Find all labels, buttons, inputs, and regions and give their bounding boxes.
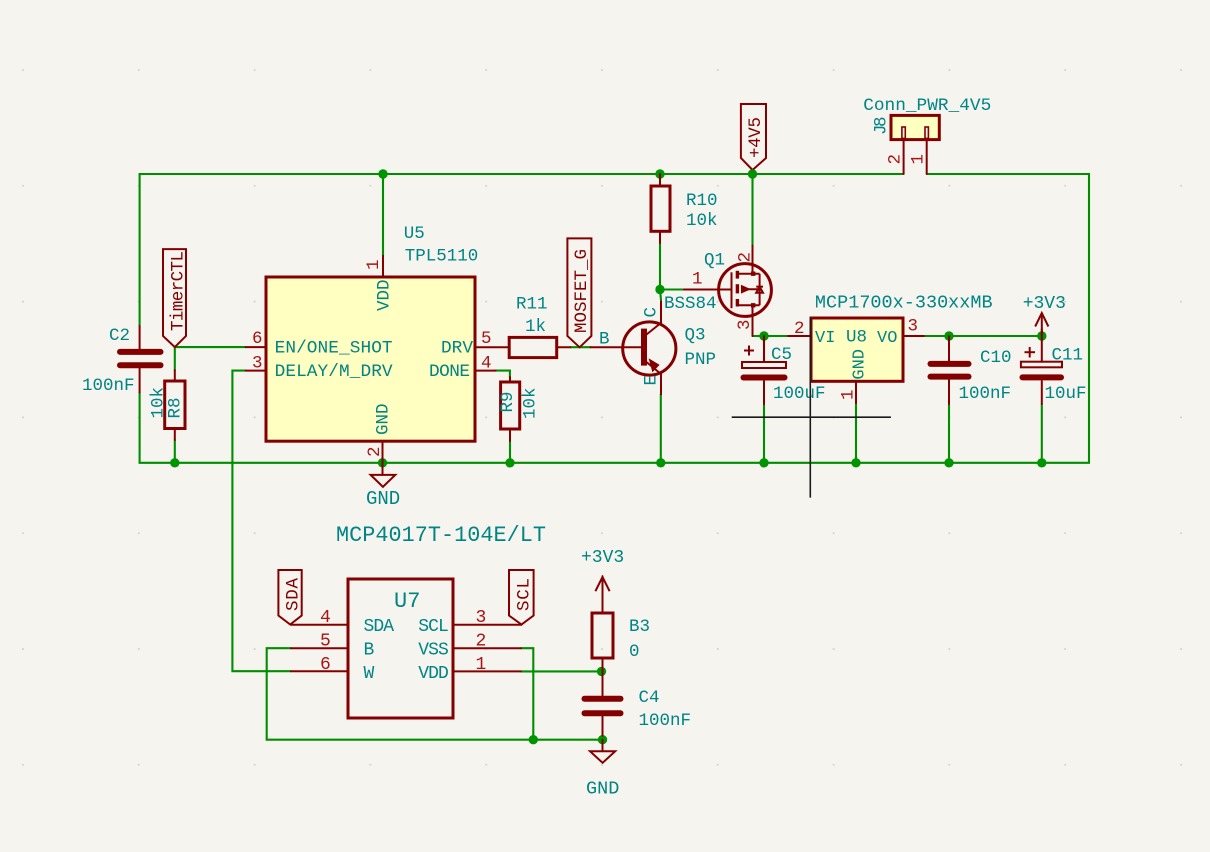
svg-text:VDD: VDD: [418, 664, 449, 684]
svg-text:6: 6: [320, 655, 331, 675]
svg-text:VO: VO: [877, 329, 897, 348]
svg-text:DELAY/M_DRV: DELAY/M_DRV: [275, 362, 393, 382]
svg-text:1: 1: [364, 259, 384, 270]
svg-text:PNP: PNP: [685, 350, 717, 370]
svg-text:U8: U8: [846, 328, 867, 348]
svg-text:100nF: 100nF: [639, 711, 692, 731]
svg-text:10uF: 10uF: [1045, 384, 1087, 404]
svg-text:C5: C5: [771, 345, 792, 365]
svg-text:TPL5110: TPL5110: [405, 247, 479, 267]
svg-text:+4V5: +4V5: [746, 117, 766, 158]
svg-text:3: 3: [908, 317, 919, 337]
svg-text:MOSFET_G: MOSFET_G: [572, 249, 592, 333]
svg-text:U7: U7: [394, 589, 420, 614]
svg-text:C11: C11: [1052, 346, 1084, 366]
svg-text:6: 6: [252, 329, 263, 349]
svg-text:Q1: Q1: [704, 251, 725, 271]
svg-text:MCP4017T-104E/LT: MCP4017T-104E/LT: [336, 523, 546, 548]
svg-text:SCL: SCL: [515, 578, 535, 611]
svg-text:GND: GND: [366, 488, 400, 510]
svg-text:SDA: SDA: [284, 578, 304, 611]
svg-text:4: 4: [481, 354, 492, 374]
svg-text:GND: GND: [851, 349, 870, 380]
svg-text:3: 3: [735, 319, 755, 330]
svg-text:C10: C10: [980, 348, 1012, 368]
svg-text:TimerCTL: TimerCTL: [169, 251, 189, 331]
svg-text:DONE: DONE: [429, 362, 470, 382]
svg-text:2: 2: [736, 252, 756, 263]
svg-text:2: 2: [365, 446, 385, 457]
svg-text:1: 1: [692, 270, 703, 290]
svg-text:U5: U5: [404, 224, 425, 244]
svg-text:E: E: [642, 375, 662, 386]
svg-text:B: B: [364, 641, 375, 661]
svg-text:EN/ONE_SHOT: EN/ONE_SHOT: [275, 339, 393, 359]
svg-text:R10: R10: [686, 191, 718, 211]
svg-text:B: B: [599, 330, 610, 350]
svg-text:0: 0: [629, 642, 640, 662]
svg-text:VSS: VSS: [418, 641, 449, 661]
svg-text:2: 2: [886, 154, 906, 165]
svg-text:Conn_PWR_4V5: Conn_PWR_4V5: [863, 96, 991, 116]
svg-text:R9: R9: [498, 391, 518, 412]
svg-text:Q3: Q3: [685, 326, 706, 346]
svg-text:R8: R8: [166, 397, 186, 418]
svg-text:10k: 10k: [686, 211, 718, 231]
svg-text:SDA: SDA: [364, 617, 395, 637]
svg-text:BSS84: BSS84: [664, 294, 717, 314]
svg-text:2: 2: [476, 632, 487, 652]
svg-text:GND: GND: [586, 779, 619, 800]
svg-text:R11: R11: [516, 295, 548, 315]
svg-text:4: 4: [320, 608, 331, 628]
svg-text:100uF: 100uF: [773, 384, 826, 404]
svg-text:1: 1: [839, 389, 859, 400]
svg-text:1k: 1k: [525, 317, 546, 337]
svg-text:DRV: DRV: [441, 339, 473, 359]
svg-text:5: 5: [481, 329, 492, 349]
svg-text:3: 3: [252, 354, 263, 374]
svg-text:C: C: [642, 307, 662, 318]
svg-text:1: 1: [476, 655, 487, 675]
svg-text:GND: GND: [374, 403, 394, 435]
svg-text:VI: VI: [815, 329, 835, 348]
svg-text:B3: B3: [629, 617, 650, 637]
svg-text:100nF: 100nF: [959, 384, 1012, 404]
svg-text:5: 5: [320, 632, 331, 652]
svg-text:+3V3: +3V3: [1023, 294, 1066, 314]
svg-text:MCP1700x-330xxMB: MCP1700x-330xxMB: [815, 293, 993, 314]
svg-text:C4: C4: [639, 688, 660, 708]
svg-text:J8: J8: [872, 117, 892, 136]
svg-text:SCL: SCL: [418, 617, 449, 637]
svg-text:1: 1: [909, 154, 929, 165]
svg-text:3: 3: [476, 608, 487, 628]
svg-text:VDD: VDD: [375, 279, 395, 311]
svg-text:+3V3: +3V3: [581, 548, 624, 568]
svg-text:W: W: [364, 664, 375, 684]
svg-text:2: 2: [794, 319, 805, 339]
svg-text:100nF: 100nF: [82, 376, 135, 396]
svg-text:10k: 10k: [521, 387, 541, 419]
svg-text:C2: C2: [109, 326, 130, 346]
